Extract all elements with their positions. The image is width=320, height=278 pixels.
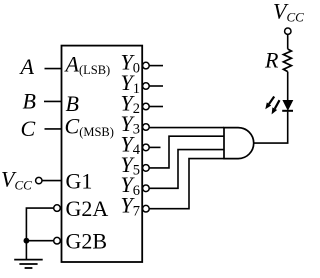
LED D1 triangle bbox=[283, 101, 292, 110]
resistor R bbox=[283, 49, 291, 72]
svg-text:B: B bbox=[23, 89, 36, 114]
svg-text:G1: G1 bbox=[66, 168, 93, 193]
svg-text:A: A bbox=[19, 54, 35, 79]
output bubble Y1 bbox=[143, 83, 150, 90]
junction dot at G2A/G2B rail bbox=[24, 238, 30, 244]
inversion bubble G2B bbox=[54, 237, 61, 244]
svg-text:R: R bbox=[264, 47, 279, 72]
output bubble Y2 bbox=[143, 103, 150, 110]
wire G2B to ground rail bbox=[26, 240, 53, 242]
svg-text:G2A: G2A bbox=[66, 196, 109, 221]
wire Y2 stub bbox=[149, 106, 163, 108]
output bubble Y7 bbox=[143, 205, 150, 212]
wire A input stub bbox=[45, 68, 62, 70]
output bubble Y6 bbox=[143, 185, 150, 192]
wire VCC to resistor bbox=[287, 34, 289, 49]
IC U1 (3-to-8 decoder) body bbox=[62, 46, 143, 262]
svg-text:G2B: G2B bbox=[66, 228, 108, 253]
LED emission arrow 1 bbox=[265, 97, 274, 110]
wire B input stub bbox=[44, 100, 62, 102]
wire Y1 stub bbox=[149, 85, 163, 87]
svg-text:B: B bbox=[66, 91, 79, 116]
wire VCC to G1 bbox=[42, 180, 62, 182]
wire resistor to LED anode bbox=[287, 72, 289, 101]
ground symbol bbox=[14, 260, 43, 268]
output bubble Y5 bbox=[143, 165, 150, 172]
svg-text:C: C bbox=[21, 116, 36, 141]
LED emission arrow 2 bbox=[272, 100, 280, 114]
wire Y0 stub bbox=[149, 65, 163, 67]
wire G2A to ground rail bbox=[26, 208, 53, 241]
LED D1 cathode bar bbox=[282, 110, 293, 112]
wire ground stem bbox=[25, 241, 27, 260]
output bubble Y3 bbox=[143, 124, 150, 131]
wire Y6 to gate input 3 bbox=[149, 150, 224, 189]
AND gate U2 bbox=[224, 128, 254, 159]
terminal circle VCC-G1 bbox=[36, 177, 42, 183]
wire Y3 to gate top input bbox=[149, 127, 224, 129]
wire Y5 to gate input 2 bbox=[149, 136, 224, 168]
output bubble Y4 bbox=[143, 144, 150, 151]
terminal circle VCC top bbox=[285, 28, 291, 34]
wire Y4 stub bbox=[149, 146, 160, 148]
wire Y7 to gate bottom input bbox=[149, 159, 224, 209]
wire C input stub bbox=[45, 128, 62, 130]
output bubble Y0 bbox=[143, 62, 150, 69]
inversion bubble G2A bbox=[54, 205, 61, 212]
wire gate output to LED cathode bbox=[254, 112, 288, 144]
